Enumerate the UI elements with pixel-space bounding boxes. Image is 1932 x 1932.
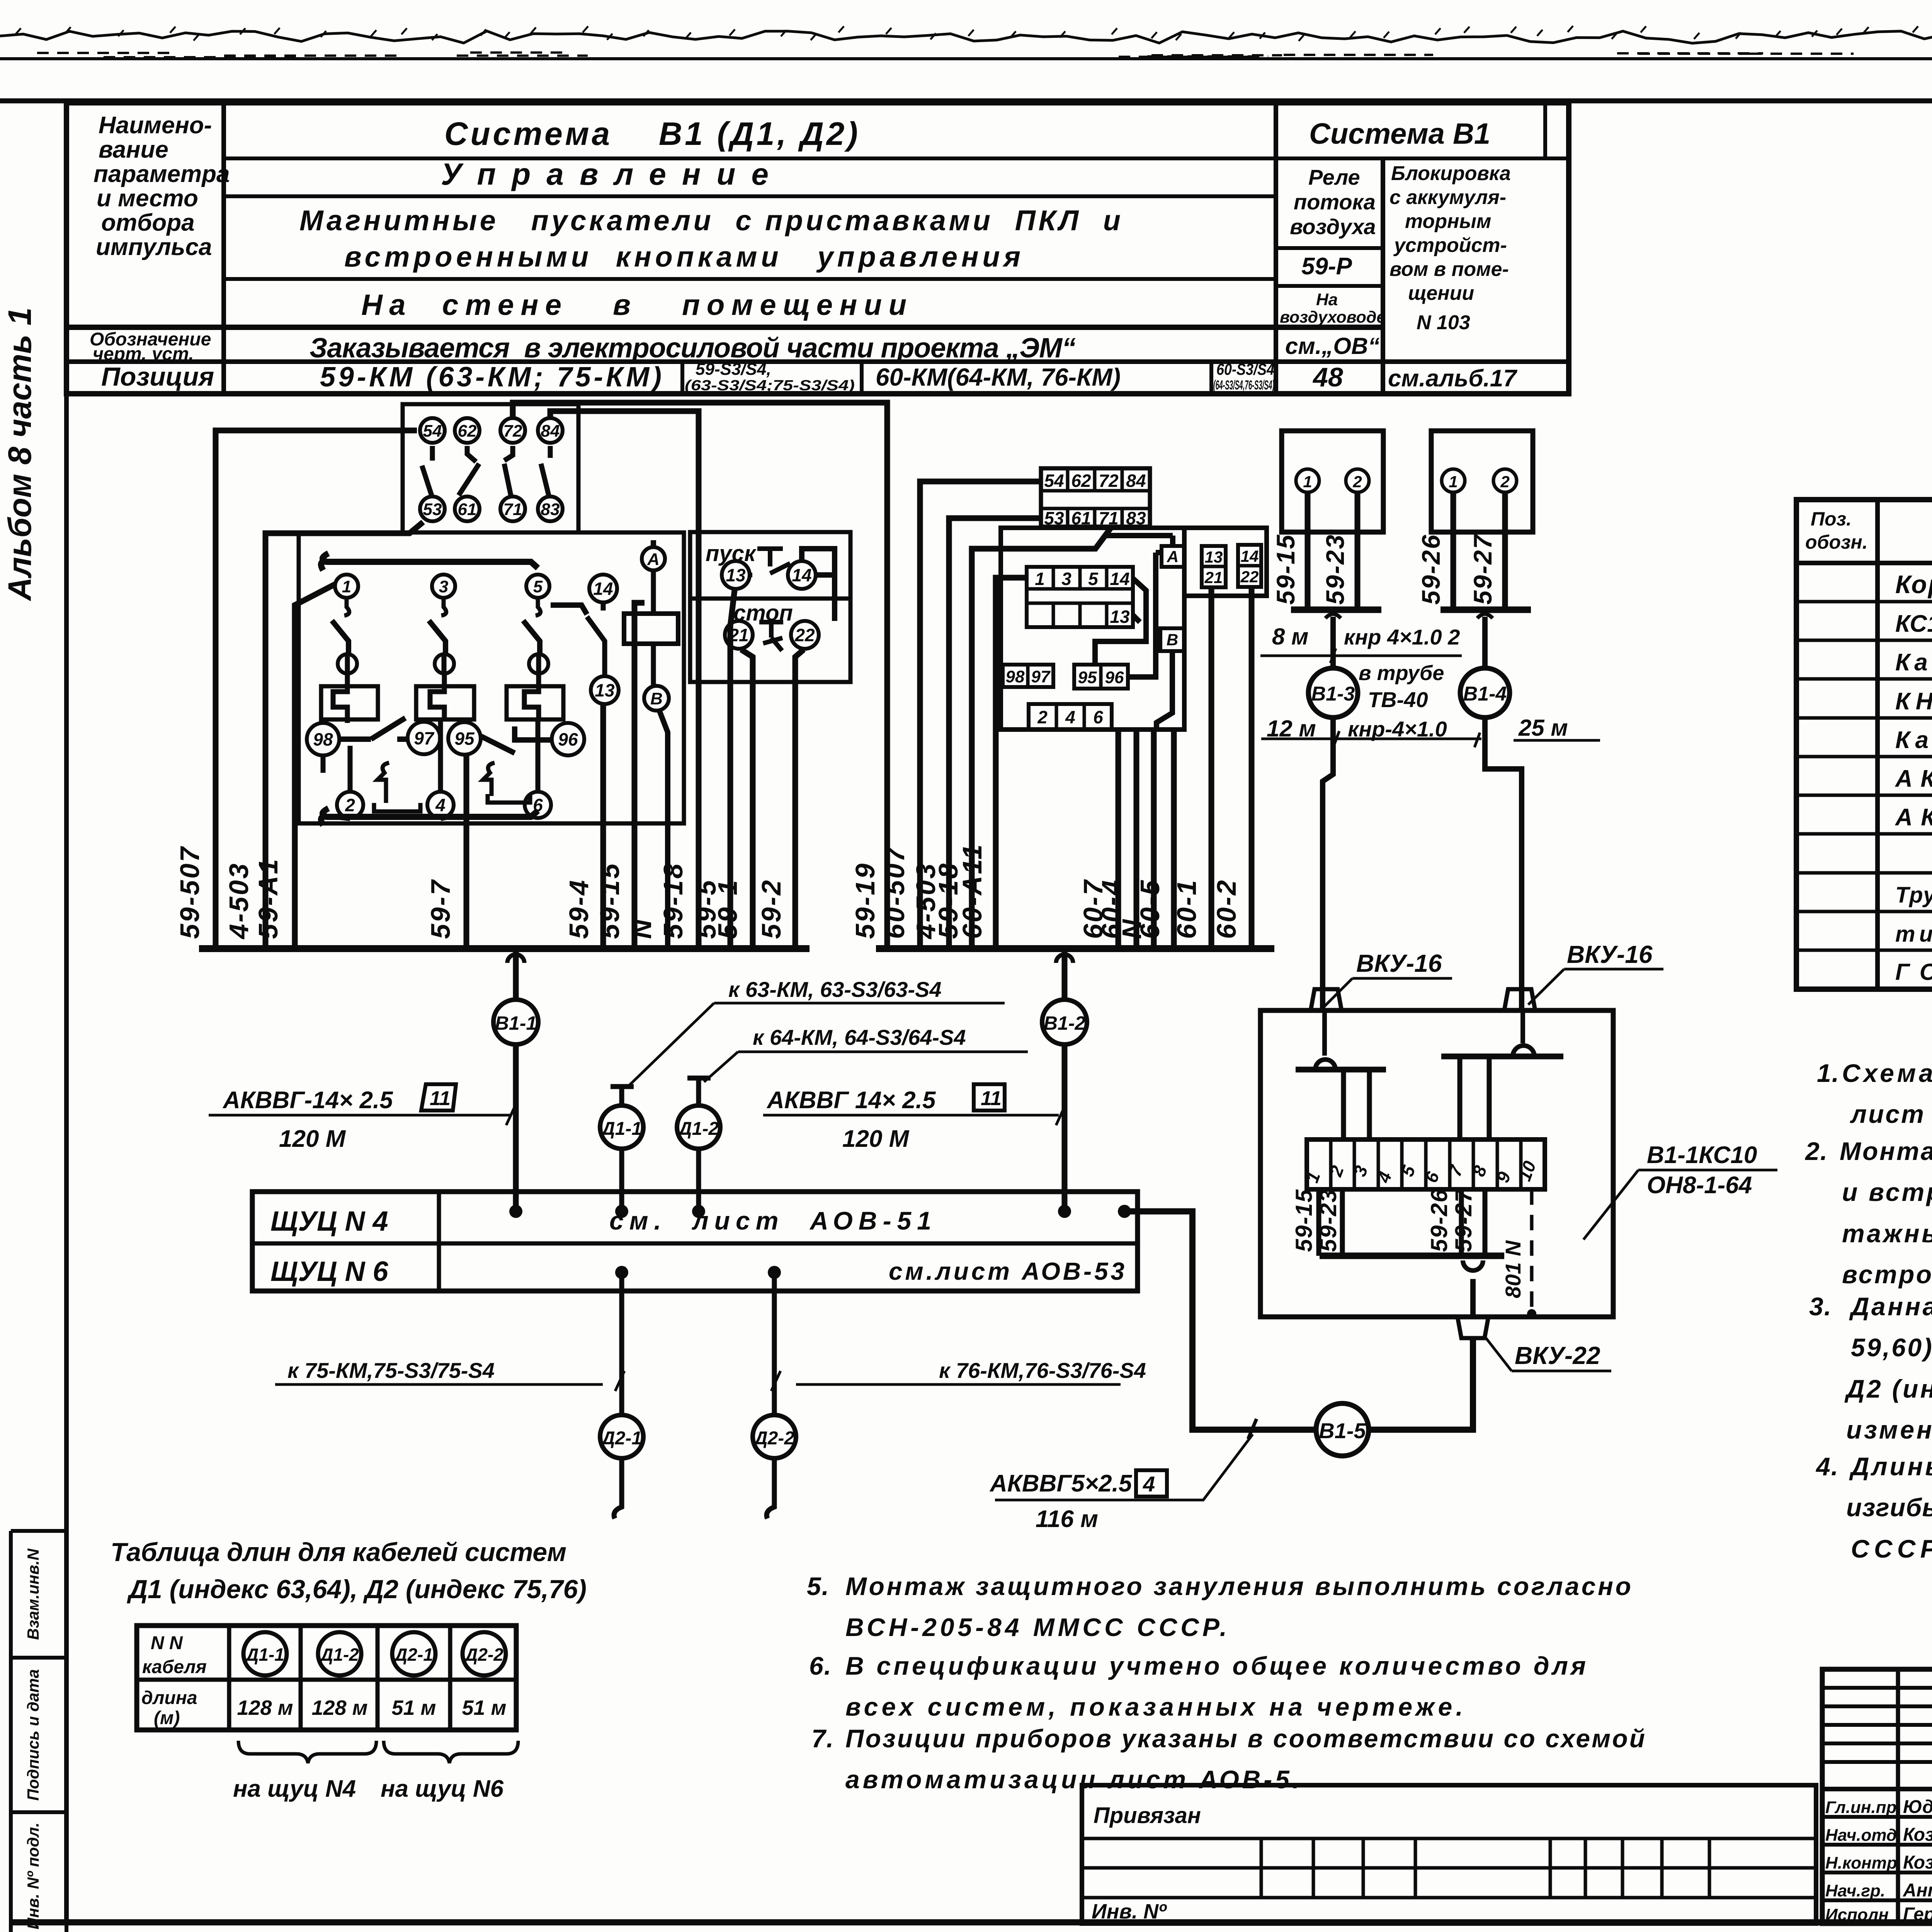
svg-text:В спецификации учтено общее: В спецификации учтено общее количество д… xyxy=(845,1651,1586,1680)
pole 3 coil box xyxy=(416,686,474,719)
svg-text:51 м: 51 м xyxy=(391,1696,436,1719)
svg-text:22: 22 xyxy=(794,625,815,645)
svg-text:вание: вание xyxy=(99,136,168,163)
svg-text:Монтаж защитного зануления: Монтаж защитного зануления выполнить сог… xyxy=(845,1572,1631,1600)
aux contact blade 62-61 xyxy=(459,446,479,495)
akvvg5x2.5 leader xyxy=(995,1434,1253,1500)
cable B1-4 hook xyxy=(1477,614,1493,618)
svg-text:59-7: 59-7 xyxy=(425,879,456,939)
svg-text:АКВВГ5×2.5: АКВВГ5×2.5 xyxy=(989,1470,1133,1497)
montage riser x2941 xyxy=(1134,730,1139,949)
svg-text:59-15: 59-15 xyxy=(595,862,625,939)
svg-text:5.: 5. xyxy=(807,1572,830,1600)
svg-text:тажным символам магнитного: тажным символам магнитного пускателя 59-… xyxy=(1842,1219,1932,1248)
svg-text:Д1-2: Д1-2 xyxy=(319,1645,359,1665)
svg-text:к 75-КМ,75-S3/75-S4: к 75-КМ,75-S3/75-S4 xyxy=(287,1358,495,1383)
svg-text:4-503: 4-503 xyxy=(224,862,254,940)
svg-text:Длины кабелей даны с учет: Длины кабелей даны с учетом 6°/₀ надбавк… xyxy=(1849,1452,1932,1481)
svg-text:В1-1КС10: В1-1КС10 xyxy=(1647,1142,1757,1168)
rule akvvg left xyxy=(209,1105,515,1125)
sheet top border line xyxy=(0,57,1932,60)
svg-text:на щуц N6: на щуц N6 xyxy=(381,1776,504,1802)
sheet left border xyxy=(64,100,69,1923)
svg-text:Альбом 8 часть 1: Альбом 8 часть 1 xyxy=(2,308,38,602)
pole 1 hook xyxy=(344,598,349,616)
jbox bottom bus xyxy=(1320,1253,1504,1259)
D2-2 drop xyxy=(772,1272,777,1414)
svg-text:120 М: 120 М xyxy=(279,1126,346,1152)
cable circle Д2-1 xyxy=(392,1632,435,1675)
svg-text:3: 3 xyxy=(1061,569,1071,589)
svg-text:АКВВГ-14× 2.5: АКВВГ-14× 2.5 xyxy=(222,1087,393,1114)
marker B1-3 xyxy=(1308,668,1358,718)
starter pole terminal 1 xyxy=(335,575,358,598)
cable B1-3 drop xyxy=(1323,617,1333,1010)
pole 1 coil box xyxy=(321,686,378,719)
spec table outer box xyxy=(1796,500,1932,989)
svg-text:2: 2 xyxy=(345,795,355,815)
thermal terminal 95 xyxy=(448,722,481,755)
svg-text:48: 48 xyxy=(1312,362,1343,392)
sensor mini-bus 2 xyxy=(1440,607,1531,613)
pole 5 hook xyxy=(536,598,541,616)
svg-text:Труба из поливинилхлоридного п: Труба из поливинилхлоридного плас- xyxy=(1895,883,1932,908)
D2-1 drop xyxy=(619,1272,624,1414)
pole 3 hook xyxy=(441,598,446,616)
montage internal wire 96-A xyxy=(1128,553,1162,677)
montage riser x3239 xyxy=(1249,587,1255,949)
position row cell dividers xyxy=(680,362,684,394)
svg-text:2: 2 xyxy=(1500,473,1509,491)
svg-text:Данная схема выполненна дл: Данная схема выполненна для системы В1 (… xyxy=(1849,1292,1932,1321)
svg-text:14: 14 xyxy=(792,565,811,585)
pusk terminal 14 xyxy=(788,561,816,589)
svg-text:Взам.инв.N: Взам.инв.N xyxy=(24,1548,42,1640)
aux terminal 13 xyxy=(591,676,619,704)
montage box 98-97 xyxy=(1003,665,1053,687)
magnetic starter 59-KM main box xyxy=(299,532,684,823)
pole 3 protection circle xyxy=(435,654,454,673)
montage box 2-4-6 xyxy=(1029,704,1112,730)
svg-text:1: 1 xyxy=(1303,473,1312,491)
thermal terminal 97 xyxy=(408,722,440,754)
gland top-left xyxy=(1311,989,1342,1010)
svg-text:Д2-1: Д2-1 xyxy=(393,1645,433,1665)
aux contact terminal 53 xyxy=(420,497,445,521)
svg-text:14: 14 xyxy=(1110,569,1129,589)
jbox exit wire xyxy=(1470,1279,1476,1317)
svg-text:изгибы, повороты и отходы: изгибы, повороты и отходы согласно письм… xyxy=(1846,1493,1932,1522)
thermal heater 1 xyxy=(374,763,420,811)
D1-2 drop xyxy=(687,1078,711,1105)
svg-text:98: 98 xyxy=(313,730,333,750)
brace shchuc4 xyxy=(238,1741,376,1763)
pole bottom terminal 2 xyxy=(337,792,363,818)
svg-text:В1-3: В1-3 xyxy=(1311,683,1355,705)
svg-text:128 м: 128 м xyxy=(311,1696,367,1719)
aux contact blade 54-53 xyxy=(422,446,432,495)
svg-text:Система В1: Система В1 xyxy=(1309,117,1490,150)
svg-text:N N: N N xyxy=(151,1633,183,1653)
svg-text:щении: щении xyxy=(1408,282,1474,304)
svg-text:Исполн: Исполн xyxy=(1825,1905,1889,1924)
svg-text:тиката ТВ-40-230 - 25×1.15: тиката ТВ-40-230 - 25×1.15 xyxy=(1895,922,1932,947)
aux contact blade 84-83 xyxy=(541,446,550,495)
svg-text:59-27: 59-27 xyxy=(1451,1189,1476,1252)
box 11 left xyxy=(421,1084,456,1111)
sensor mini-bus 1 xyxy=(1291,607,1381,613)
wire A-coil-B xyxy=(651,570,656,687)
montage internal wire 14-95 xyxy=(1095,578,1146,665)
pole 1 internal wire xyxy=(323,655,350,792)
svg-text:Привязан: Привязан xyxy=(1094,1803,1201,1828)
label 801N dashed wire xyxy=(1530,1189,1534,1314)
svg-text:72: 72 xyxy=(1099,471,1119,491)
torn top dark smudges xyxy=(37,53,1932,57)
svg-text:21: 21 xyxy=(1204,568,1223,587)
pole 1 protection circle xyxy=(338,654,357,673)
cable B1-3 hook xyxy=(1325,614,1341,618)
svg-text:61: 61 xyxy=(1071,508,1091,528)
pole 3 contact blade xyxy=(429,621,446,655)
montage block 60-KM main box xyxy=(1001,528,1184,730)
svg-text:59-S3/S4,: 59-S3/S4, xyxy=(696,360,771,379)
svg-text:14: 14 xyxy=(1241,547,1259,565)
svg-text:71: 71 xyxy=(503,500,522,519)
svg-text:2.: 2. xyxy=(1804,1137,1828,1165)
svg-text:А: А xyxy=(1167,548,1179,566)
spec table header row line xyxy=(1796,561,1932,565)
svg-text:Козлов: Козлов xyxy=(1903,1852,1932,1873)
svg-text:Монтажные символы магнитного: Монтажные символы магнитного пускателя 6… xyxy=(1840,1137,1932,1165)
wire 72 to 59-19 riser xyxy=(513,403,887,949)
sensor 2 terminal 1 xyxy=(1442,469,1465,492)
sensor 1 terminal 2 xyxy=(1346,469,1369,492)
svg-text:128 м: 128 м xyxy=(237,1696,293,1719)
strip wires down right pair xyxy=(1461,1189,1485,1256)
svg-text:3.: 3. xyxy=(1809,1292,1832,1321)
svg-text:13: 13 xyxy=(726,565,746,585)
phase A terminal xyxy=(642,547,665,570)
stop terminal 21 xyxy=(725,621,753,649)
svg-text:к 76-КМ,76-S3/76-S4: к 76-КМ,76-S3/76-S4 xyxy=(939,1358,1146,1383)
aux contact terminal 54 xyxy=(420,418,445,443)
svg-text:Инв. Nº подл.: Инв. Nº подл. xyxy=(24,1823,42,1930)
wire 60-507 riser xyxy=(920,481,1041,949)
svg-text:В1-4: В1-4 xyxy=(1463,683,1507,705)
svg-text:ЩУЦ N 6: ЩУЦ N 6 xyxy=(270,1256,388,1287)
svg-text:59-КМ (63-КМ; 75-КМ): 59-КМ (63-КМ; 75-КМ) xyxy=(320,362,662,393)
cable circle Д2-2 xyxy=(463,1632,506,1675)
svg-text:53: 53 xyxy=(423,500,442,519)
svg-text:параметра: параметра xyxy=(94,161,230,187)
svg-text:N: N xyxy=(627,918,657,939)
aux terminal 14 xyxy=(589,575,617,602)
stop button symbol xyxy=(759,622,783,651)
svg-text:изменения индекса в обозн: изменения индекса в обозначении. xyxy=(1846,1415,1932,1444)
svg-text:1.: 1. xyxy=(1817,1059,1840,1087)
right entry bar xyxy=(1441,1054,1563,1060)
rule under 8m xyxy=(1260,648,1462,663)
marker B1-4 xyxy=(1460,668,1510,718)
svg-text:4: 4 xyxy=(1143,1472,1155,1496)
svg-text:к 63-КМ, 63-S3/63-S4: к 63-КМ, 63-S3/63-S4 xyxy=(728,977,942,1002)
svg-text:Д2-2: Д2-2 xyxy=(463,1645,503,1665)
svg-text:воздуха: воздуха xyxy=(1290,214,1376,239)
svg-text:ТВ-40: ТВ-40 xyxy=(1368,687,1428,712)
svg-text:13: 13 xyxy=(595,680,615,701)
svg-text:ВСН-205-84 ММСС СССР.: ВСН-205-84 ММСС СССР. xyxy=(845,1613,1227,1641)
aux contact blade 72-71 xyxy=(504,446,513,495)
svg-text:59-А1: 59-А1 xyxy=(253,857,283,939)
svg-text:59-26: 59-26 xyxy=(1426,1189,1452,1252)
svg-text:60-А11: 60-А11 xyxy=(957,843,987,939)
svg-text:59-Р: 59-Р xyxy=(1301,253,1352,280)
svg-text:В1-5: В1-5 xyxy=(1319,1418,1366,1443)
svg-text:с аккумуля-: с аккумуля- xyxy=(1389,186,1506,209)
svg-text:импульса: импульса xyxy=(96,234,212,260)
junction dots row N4 xyxy=(509,1205,522,1218)
svg-text:отбора: отбора xyxy=(101,209,195,236)
cable circle Д1-2 xyxy=(318,1632,361,1675)
svg-text:Гл.ин.пр: Гл.ин.пр xyxy=(1825,1798,1896,1817)
bottom phase link wire xyxy=(321,808,538,825)
sensor wires 59-15 59-23 xyxy=(1308,492,1357,610)
svg-text:В1-2: В1-2 xyxy=(1044,1012,1086,1034)
wire pusk14 loop xyxy=(802,549,835,621)
montage riser x2894 xyxy=(1116,730,1121,949)
svg-text:Заказывается в электросиловой: Заказывается в электросиловой части прое… xyxy=(310,333,1076,364)
svg-text:черт. уст.: черт. уст. xyxy=(93,344,194,364)
aux contact terminal 61 xyxy=(455,497,480,521)
wire 59-1 xyxy=(741,650,753,949)
svg-text:Схема выполнена на основани: Схема выполнена на основании чертежей xyxy=(1842,1059,1932,1087)
svg-text:72: 72 xyxy=(503,422,522,440)
aux contact terminal 83 xyxy=(538,497,563,521)
svg-text:59-15: 59-15 xyxy=(1291,1189,1317,1252)
svg-text:и встроенных кнопок 60-S3/60: и встроенных кнопок 60-S3/60-S4 аналогич… xyxy=(1842,1178,1932,1206)
svg-text:Герасимова: Герасимова xyxy=(1903,1904,1932,1925)
pole 5 contact blade xyxy=(523,621,540,655)
sheet top inner border line xyxy=(0,99,1932,104)
wire B to bus N xyxy=(659,710,668,949)
box 11 right xyxy=(974,1084,1005,1111)
top phase link wire xyxy=(321,553,538,570)
left pair verticals xyxy=(1344,1070,1369,1139)
pole 5 coil box xyxy=(507,686,563,719)
gland top-right xyxy=(1504,989,1535,1010)
montage box 14-22 xyxy=(1238,545,1261,587)
svg-text:83: 83 xyxy=(541,500,560,519)
pole 3 internal wire xyxy=(538,655,539,792)
svg-text:Н.контр: Н.контр xyxy=(1825,1854,1897,1872)
wire 59-18 riser xyxy=(972,528,1111,949)
svg-text:59-23: 59-23 xyxy=(1321,534,1349,605)
header table outer box xyxy=(66,103,1569,394)
svg-text:59-19: 59-19 xyxy=(850,862,880,939)
B1-5 wire left xyxy=(1124,1211,1473,1430)
montage riser x3135 xyxy=(1209,587,1214,949)
junction box KC10 xyxy=(1260,1010,1613,1317)
wire 59-4 xyxy=(600,704,606,949)
svg-text:Д1-1: Д1-1 xyxy=(244,1645,284,1665)
D1-1 drop xyxy=(611,1087,634,1105)
wire 59-7 xyxy=(464,755,469,949)
pole 5 coil hook line xyxy=(524,673,539,719)
svg-text:95: 95 xyxy=(1078,668,1097,687)
svg-text:801 N: 801 N xyxy=(1501,1240,1525,1298)
svg-text:Нач.отд: Нач.отд xyxy=(1825,1826,1897,1845)
svg-text:98: 98 xyxy=(1006,667,1025,686)
svg-text:В1-1: В1-1 xyxy=(495,1012,537,1034)
rule under 12m xyxy=(1261,731,1600,747)
svg-text:11: 11 xyxy=(430,1087,451,1110)
jbox exit hump xyxy=(1463,1260,1483,1270)
svg-text:В: В xyxy=(1167,631,1178,649)
starter pole terminal 3 xyxy=(432,575,455,598)
svg-text:Наимено-: Наимено- xyxy=(99,112,212,139)
main title block xyxy=(1822,1669,1932,1923)
stop terminal 22 xyxy=(791,621,819,649)
svg-text:и место: и место xyxy=(97,185,198,212)
pusk button symbol xyxy=(750,549,790,575)
terminal bus 59-KM xyxy=(199,945,810,952)
montage internal wire B down xyxy=(1156,651,1172,730)
svg-text:АКВВГ 14× 2.5: АКВВГ 14× 2.5 xyxy=(766,1087,936,1114)
svg-text:54: 54 xyxy=(1044,471,1064,491)
start-stop button box xyxy=(690,532,850,682)
svg-text:62: 62 xyxy=(458,422,477,440)
svg-text:лист АОВ-10, АОВ-12.: лист АОВ-10, АОВ-12. xyxy=(1850,1100,1932,1128)
svg-text:Д1-2: Д1-2 xyxy=(677,1119,719,1139)
svg-text:см. лист АОВ-51: см. лист АОВ-51 xyxy=(609,1206,931,1235)
svg-text:На: На xyxy=(1316,290,1338,309)
wire 59-15 riser xyxy=(634,603,645,949)
thermal terminal 96 xyxy=(552,723,584,755)
marker B1-2 xyxy=(1056,954,1073,963)
marker B1-1 xyxy=(507,954,524,963)
svg-text:N 103: N 103 xyxy=(1417,311,1470,334)
svg-text:62: 62 xyxy=(1071,471,1091,491)
svg-text:ВКУ-22: ВКУ-22 xyxy=(1515,1342,1600,1369)
wire 84 to 59-18 riser xyxy=(550,411,699,949)
montage terminal rows box xyxy=(1027,567,1133,627)
svg-text:вом в поме-: вом в поме- xyxy=(1389,258,1509,281)
svg-text:ВКУ-16: ВКУ-16 xyxy=(1567,940,1653,968)
montage riser x2986 xyxy=(1151,730,1157,949)
svg-text:А: А xyxy=(647,550,660,569)
svg-text:59-15: 59-15 xyxy=(1271,534,1300,605)
svg-text:6.: 6. xyxy=(809,1651,832,1680)
sensor 2 terminal 2 xyxy=(1493,469,1517,492)
montage box 13-21 xyxy=(1202,546,1226,587)
svg-text:см.альб.17: см.альб.17 xyxy=(1388,365,1517,392)
svg-text:120 М: 120 М xyxy=(842,1126,910,1152)
svg-text:11: 11 xyxy=(981,1087,1002,1110)
svg-text:КС10: КС10 xyxy=(1895,611,1932,637)
svg-text:в трубе: в трубе xyxy=(1359,662,1444,685)
sensor 1 terminal 1 xyxy=(1296,469,1319,492)
svg-text:84: 84 xyxy=(1126,471,1146,491)
svg-text:96: 96 xyxy=(1105,668,1124,687)
svg-text:1: 1 xyxy=(1449,473,1458,491)
montage box B xyxy=(1160,628,1184,651)
left margin stamp column xyxy=(11,1531,66,1932)
pole 3 coil hook line xyxy=(430,673,444,719)
svg-text:59-4: 59-4 xyxy=(564,879,594,939)
brace shchuc6 xyxy=(384,1741,518,1763)
rule akvvg right xyxy=(763,1105,1065,1125)
svg-text:Д2-1: Д2-1 xyxy=(600,1428,642,1449)
starter pole terminal 5 xyxy=(526,575,549,598)
svg-text:Позиция: Позиция xyxy=(101,362,214,391)
right cable entry hump xyxy=(1513,1010,1534,1056)
montage box 95-96 xyxy=(1074,665,1128,689)
svg-text:к 64-КМ, 64-S3/64-S4: к 64-КМ, 64-S3/64-S4 xyxy=(753,1025,966,1049)
svg-text:Блокировка: Блокировка xyxy=(1391,162,1511,185)
spec table row lines xyxy=(1796,600,1932,604)
montage riser x3038 xyxy=(1171,730,1177,949)
svg-text:(64-S3/S4,76-S3/S4): (64-S3/S4,76-S3/S4) xyxy=(1213,378,1274,393)
aux contact terminal 62 xyxy=(455,418,480,443)
svg-text:4.: 4. xyxy=(1815,1452,1839,1481)
wire 59-507 xyxy=(216,430,417,949)
svg-text:на щуц N4: на щуц N4 xyxy=(233,1776,356,1802)
cable circle Д1-1 xyxy=(243,1632,287,1675)
pole 1 contact blade xyxy=(332,621,349,655)
gland bottom xyxy=(1458,1317,1488,1338)
svg-text:6: 6 xyxy=(1093,707,1103,727)
svg-text:8 м: 8 м xyxy=(1272,624,1308,650)
svg-text:Юдин: Юдин xyxy=(1903,1797,1932,1817)
svg-text:2: 2 xyxy=(1352,473,1362,491)
svg-text:1: 1 xyxy=(342,577,351,596)
junction dots row N6 xyxy=(615,1266,628,1279)
svg-text:59-27: 59-27 xyxy=(1468,534,1497,605)
svg-text:97: 97 xyxy=(414,728,435,748)
header subtable verticals xyxy=(1274,105,1278,394)
svg-text:59-2: 59-2 xyxy=(756,879,786,939)
shchuc table xyxy=(252,1192,1138,1291)
svg-text:ОН8-1-64: ОН8-1-64 xyxy=(1647,1172,1752,1199)
thermal blade 98-97 xyxy=(339,718,408,739)
svg-text:71: 71 xyxy=(1099,508,1118,528)
svg-text:потока: потока xyxy=(1294,190,1376,214)
wire 59-A1 xyxy=(295,584,335,949)
svg-text:Козлов: Козлов xyxy=(1903,1825,1932,1845)
svg-text:60-S3/S4: 60-S3/S4 xyxy=(1216,360,1274,378)
svg-text:автоматизации лист АОВ-5.: автоматизации лист АОВ-5. xyxy=(845,1765,1299,1794)
svg-text:Магнитные пускатели с прист: Магнитные пускатели с приставками ПКЛ и xyxy=(299,204,1121,236)
terminal bus 60-KM xyxy=(876,945,1274,952)
svg-text:22: 22 xyxy=(1240,568,1259,586)
slash on B1-5 wire xyxy=(1248,1419,1257,1439)
privyazan table xyxy=(1082,1785,1816,1923)
aux contact terminal 72 xyxy=(500,418,525,443)
svg-text:4: 4 xyxy=(435,795,446,815)
svg-text:кабеля: кабеля xyxy=(142,1657,207,1677)
wire 60-A11 riser xyxy=(996,578,1027,949)
svg-text:2: 2 xyxy=(1037,707,1048,727)
svg-text:Подпись и дата: Подпись и дата xyxy=(24,1669,42,1801)
svg-text:13: 13 xyxy=(1205,548,1223,566)
svg-text:Система В1 (Д1, Д2): Система В1 (Д1, Д2) xyxy=(444,116,858,152)
wire 4-503 riser xyxy=(949,518,1041,949)
svg-text:116 м: 116 м xyxy=(1036,1506,1098,1532)
pole 5 protection circle xyxy=(529,654,548,673)
svg-text:59,60). Для систем Д1 (ин: 59,60). Для систем Д1 (индекс 63,64), xyxy=(1851,1333,1932,1362)
left cable entry hump xyxy=(1315,1010,1335,1070)
